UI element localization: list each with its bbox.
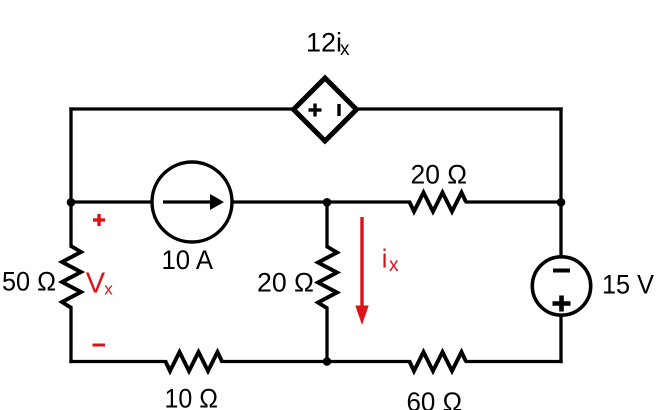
svg-text:50 Ω: 50 Ω <box>2 267 56 297</box>
svg-text:10 A: 10 A <box>162 245 214 275</box>
svg-text:x: x <box>389 255 399 276</box>
svg-text:V: V <box>86 268 106 300</box>
svg-text:20 Ω: 20 Ω <box>411 160 468 190</box>
svg-text:i: i <box>382 246 388 274</box>
svg-text:x: x <box>104 280 113 299</box>
svg-text:60 Ω: 60 Ω <box>407 387 463 410</box>
svg-text:15 V: 15 V <box>602 270 654 300</box>
svg-text:20 Ω: 20 Ω <box>257 268 314 298</box>
svg-text:10 Ω: 10 Ω <box>165 384 219 410</box>
svg-text:x: x <box>340 39 350 60</box>
svg-text:12i: 12i <box>306 28 342 58</box>
